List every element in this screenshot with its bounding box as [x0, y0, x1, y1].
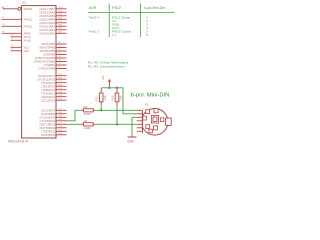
svg-text:R3, R4: Schutzwiderstand: R3, R4: Schutzwiderstand [88, 64, 125, 68]
pin (ADC6)PA6 (34) [56, 11, 67, 13]
supply VCC symbol [108, 79, 111, 82]
pin (SDA)PC1 (23) [56, 96, 67, 98]
svg-text:GND: GND [127, 139, 134, 143]
wire R1 to data net [100, 105, 102, 110]
pin (ADC4)PA4 (36) [56, 18, 67, 20]
resistor R2 [116, 88, 118, 93]
svg-text:(RXD)PD0: (RXD)PD0 [41, 133, 55, 137]
connector key notch [166, 118, 172, 125]
svg-text:IC1: IC1 [22, 0, 27, 4]
connector X1 mini-DIN circle [141, 109, 168, 136]
svg-text:(ADC0)PA0: (ADC0)PA0 [40, 31, 56, 35]
wire connector pin3 to GND [132, 117, 137, 135]
pin (MISO)PB6 (7) [56, 47, 67, 49]
pin AVCC (30) [11, 36, 22, 38]
pin (TCK)PC2 (24) [56, 92, 67, 94]
pin AREF (32) [2, 32, 22, 34]
table header underline [88, 12, 175, 14]
pin (ADC2)PA2 (38) [56, 25, 67, 27]
pin (OC1B)PD4 (18) [56, 120, 67, 122]
svg-text:XTAL2: XTAL2 [24, 17, 33, 21]
svg-text:220R: 220R [84, 112, 91, 116]
wire R4 to connector pin5 [96, 123, 137, 125]
svg-text:AVR: AVR [89, 6, 97, 10]
svg-text:VCC: VCC [101, 75, 105, 80]
pin (OC1A)PD5 (19) [56, 116, 67, 118]
wire PD pin to R4 [67, 123, 82, 125]
pin (MOSI)PB5 (6) [56, 50, 67, 52]
svg-text:GND: GND [24, 49, 29, 53]
pin (ADC1)PA1 (39) [56, 29, 67, 31]
junction at R2 top [116, 87, 118, 89]
svg-text:PortD 4: PortD 4 [89, 16, 99, 20]
pin (ADC0)PA0 (40) [56, 32, 67, 34]
pin (OC2)PD7 (21) [56, 109, 67, 111]
svg-text:6-pol Mini-Din: 6-pol Mini-Din [144, 6, 165, 10]
pin (SCK)PB7 (8) [56, 43, 67, 45]
svg-text:PortD 3: PortD 3 [89, 29, 99, 33]
svg-text:RESET: RESET [24, 7, 33, 11]
table column line 1 [108, 3, 110, 37]
svg-text:(T0/XCK)PB0: (T0/XCK)PB0 [38, 67, 56, 71]
svg-text:n.c.: n.c. [112, 33, 117, 37]
svg-text:(SCL)PC0: (SCL)PC0 [41, 98, 55, 102]
pin (TXD)PD1 (15) [56, 130, 67, 132]
wire VCC rail [101, 88, 137, 114]
pin (AIN0/INT2)PB2 (3) [56, 61, 67, 63]
pin (ICP)PD6 (20) [56, 113, 67, 115]
svg-text:6: 6 [146, 33, 148, 37]
pin RESET (9) with bubble [3, 8, 18, 10]
pin (SCL)PC0 (22) [56, 99, 67, 101]
svg-text:AGND: AGND [24, 38, 31, 42]
svg-text:10k: 10k [103, 95, 107, 101]
pin (INT1)PD3 (17) [56, 123, 67, 125]
pin (TMS)PC3 (25) [56, 89, 67, 91]
ground symbol [131, 135, 133, 137]
pin (INT0)PD2 (16) [56, 127, 67, 129]
pin (TOSC1)PC6 (28) [56, 78, 67, 80]
ic IC1 MEGA16-P box [22, 6, 56, 138]
pin (ADC7)PA7 (33) [56, 8, 67, 10]
pin AGND (31) [11, 39, 22, 41]
pin (TOSC2)PC7 (29) [56, 75, 67, 77]
svg-text:R3: R3 [84, 105, 88, 109]
svg-text:XTAL1: XTAL1 [24, 24, 33, 28]
wire R2 to clock net [116, 105, 118, 124]
resistor R3 [81, 109, 83, 111]
pin (TDO)PC4 (26) [56, 85, 67, 87]
pin (T1)PB1 (2) [56, 64, 67, 66]
svg-text:R4: R4 [84, 119, 88, 123]
svg-text:R2: R2 [111, 96, 115, 101]
svg-text:6-pol. Mini-DIN: 6-pol. Mini-DIN [131, 92, 170, 98]
pin XTAL1 (13) [2, 25, 22, 27]
pin GND (11) [11, 50, 22, 52]
svg-text:X1: X1 [145, 102, 149, 106]
svg-text:10k: 10k [119, 95, 123, 101]
pin (SS)PB4 (5) [56, 54, 67, 56]
svg-text:PS/2: PS/2 [112, 6, 121, 10]
pin (RXD)PD0 (14) [56, 134, 67, 136]
pin (ADC3)PA3 (37) [56, 22, 67, 24]
pin (TDI)PC5 (27) [56, 82, 67, 84]
wire R3 to connector pin1 [96, 109, 137, 111]
connector pin stubs [137, 109, 143, 111]
pin (ADC5)PA5 (35) [56, 15, 67, 17]
table column line 2 [140, 3, 142, 37]
wire PD pin to R3 [67, 110, 82, 121]
resistor R4 [81, 123, 83, 125]
svg-text:R1: R1 [95, 96, 99, 101]
junction at VCC stem [108, 87, 110, 89]
resistor R1 [100, 88, 102, 93]
pin XTAL2 (12) [2, 18, 22, 20]
pin (T0/XCK)PB0 (1) [56, 68, 67, 70]
svg-text:220R: 220R [84, 126, 91, 130]
svg-text:MEGA16-P: MEGA16-P [8, 139, 29, 143]
connector pin squares [146, 110, 150, 114]
pin (AIN1/OC0)PB3 (4) [56, 57, 67, 59]
pin VCC (10) [11, 46, 22, 48]
